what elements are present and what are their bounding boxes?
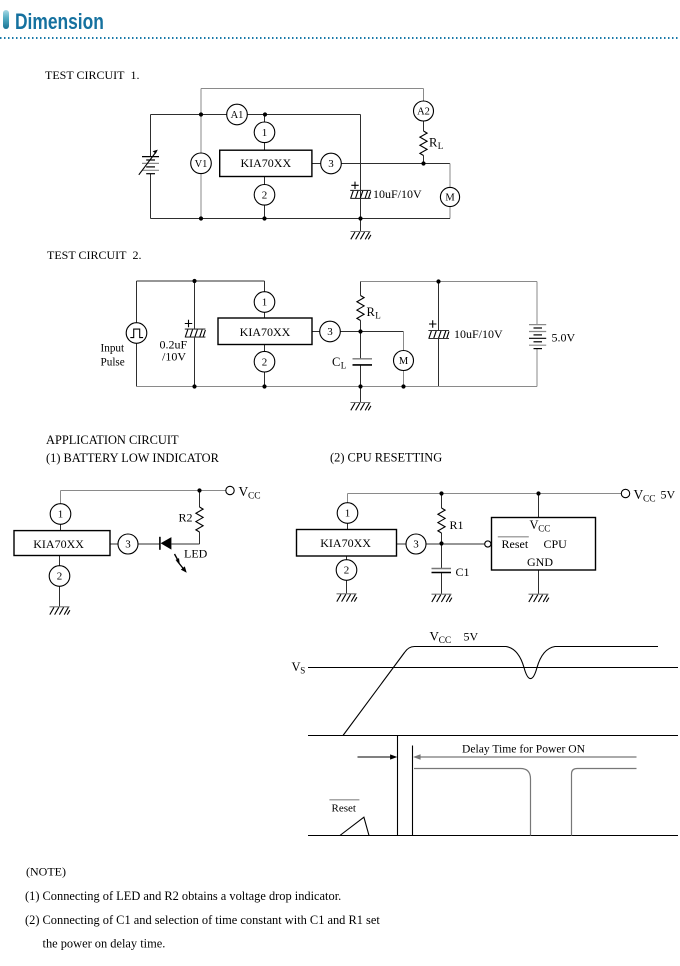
svg-text:1: 1 xyxy=(262,297,268,309)
svg-text:(1) Connecting of LED and R2 o: (1) Connecting of LED and R2 obtains a v… xyxy=(25,889,341,903)
svg-text:V: V xyxy=(292,660,301,674)
svg-text:V1: V1 xyxy=(195,159,208,170)
svg-text:S: S xyxy=(300,666,305,676)
svg-text:CC: CC xyxy=(538,524,550,534)
svg-text:3: 3 xyxy=(413,539,419,551)
svg-text:R: R xyxy=(429,136,438,150)
svg-text:/10V: /10V xyxy=(162,350,186,364)
svg-text:CC: CC xyxy=(643,495,656,505)
svg-text:3: 3 xyxy=(328,158,334,170)
svg-text:2: 2 xyxy=(57,571,63,583)
svg-text:C: C xyxy=(332,355,340,369)
svg-text:2: 2 xyxy=(262,356,268,368)
svg-text:TEST CIRCUIT 2.: TEST CIRCUIT 2. xyxy=(47,248,141,262)
svg-text:L: L xyxy=(341,361,347,371)
svg-text:TEST CIRCUIT 1.: TEST CIRCUIT 1. xyxy=(45,68,139,82)
svg-text:CPU: CPU xyxy=(544,537,568,551)
svg-text:CC: CC xyxy=(248,492,261,502)
svg-text:R: R xyxy=(367,305,376,319)
svg-text:R2: R2 xyxy=(179,511,193,525)
svg-text:(1) BATTERY LOW INDICATOR: (1) BATTERY LOW INDICATOR xyxy=(46,451,220,465)
svg-text:2: 2 xyxy=(344,565,350,577)
svg-text:V: V xyxy=(530,518,539,532)
svg-text:Reset: Reset xyxy=(332,803,356,815)
svg-text:KIA70XX: KIA70XX xyxy=(320,536,371,550)
svg-text:5V: 5V xyxy=(464,630,479,644)
svg-text:CC: CC xyxy=(439,636,452,646)
svg-text:3: 3 xyxy=(125,539,131,551)
svg-text:Pulse: Pulse xyxy=(101,357,125,369)
svg-text:M: M xyxy=(445,193,455,204)
svg-text:(2) CPU RESETTING: (2) CPU RESETTING xyxy=(330,451,442,465)
svg-text:APPLICATION CIRCUIT: APPLICATION CIRCUIT xyxy=(46,433,179,447)
svg-text:C1: C1 xyxy=(456,565,470,579)
svg-text:3: 3 xyxy=(327,326,333,338)
svg-text:GND: GND xyxy=(527,555,553,569)
svg-text:KIA70XX: KIA70XX xyxy=(33,537,84,551)
svg-text:the power on delay time.: the power on delay time. xyxy=(43,937,166,951)
svg-text:KIA70XX: KIA70XX xyxy=(240,325,291,339)
svg-text:A2: A2 xyxy=(417,107,430,118)
svg-text:R1: R1 xyxy=(450,518,464,532)
svg-text:1: 1 xyxy=(58,509,64,521)
svg-text:KIA70XX: KIA70XX xyxy=(240,156,291,170)
svg-text:A1: A1 xyxy=(231,110,244,121)
svg-text:L: L xyxy=(375,311,381,321)
svg-text:10uF/10V: 10uF/10V xyxy=(454,327,503,341)
svg-text:1: 1 xyxy=(262,127,268,139)
svg-text:(NOTE): (NOTE) xyxy=(26,865,66,879)
svg-text:L: L xyxy=(438,141,444,151)
svg-text:(2) Connecting of C1 and selec: (2) Connecting of C1 and selection of ti… xyxy=(25,913,380,927)
svg-text:5V: 5V xyxy=(661,488,676,502)
svg-text:M: M xyxy=(399,356,409,367)
svg-text:10uF/10V: 10uF/10V xyxy=(373,187,422,201)
svg-text:5.0V: 5.0V xyxy=(552,331,576,345)
svg-text:Delay Time for Power ON: Delay Time for Power ON xyxy=(462,743,586,756)
svg-text:Reset: Reset xyxy=(502,537,529,551)
svg-text:Input: Input xyxy=(101,343,126,355)
svg-text:2: 2 xyxy=(262,190,268,202)
svg-text:LED: LED xyxy=(184,547,208,561)
svg-text:1: 1 xyxy=(345,508,351,520)
